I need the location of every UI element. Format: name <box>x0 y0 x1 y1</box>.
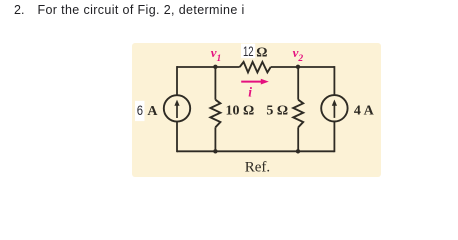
svg-text:6: 6 <box>137 103 143 118</box>
resistor R 5ohm (vertical zigzag) <box>293 100 303 128</box>
current arrow i (magenta) <box>241 79 269 85</box>
junction dot bottom-right <box>296 149 300 153</box>
wire: top-right segment (resistor to right corner) <box>271 66 335 68</box>
wire: left vertical upper (corner to 6A source) <box>176 66 178 95</box>
svg-text:Ref.: Ref. <box>245 159 270 175</box>
wire: 10-ohm branch lower <box>214 127 216 151</box>
svg-text:A: A <box>147 104 158 119</box>
svg-text:5 Ω: 5 Ω <box>266 103 288 118</box>
svg-text:4 A: 4 A <box>354 103 375 118</box>
node v2 junction dot (top) <box>296 65 300 69</box>
wire: bottom (reference) <box>177 150 334 152</box>
figure background panel <box>132 43 381 177</box>
junction dot bottom-left <box>213 149 217 153</box>
svg-text:10 Ω: 10 Ω <box>226 103 255 118</box>
wire: left vertical lower (6A source to bottom) <box>176 122 178 153</box>
current source I2 arrow <box>332 100 337 118</box>
svg-text:12: 12 <box>243 44 254 59</box>
svg-text:i: i <box>248 85 252 100</box>
node v1 junction dot (top) <box>213 65 217 69</box>
resistor R 12ohm (horizontal zigzag) <box>240 62 271 73</box>
problem statement text <box>14 3 245 17</box>
wire: 10-ohm branch upper <box>214 67 216 100</box>
svg-text:Ω: Ω <box>256 46 267 61</box>
resistor R 10ohm (vertical zigzag) <box>210 100 220 128</box>
current source I2 4A (circle) <box>321 95 347 121</box>
wire: top-left segment (left corner to 12-ohm resistor) <box>177 66 240 68</box>
label white patch behind 12 <box>241 44 255 59</box>
wire: right vertical upper (corner to 4A source) <box>333 66 335 95</box>
current source I1 arrow <box>174 100 179 118</box>
wire: 5-ohm branch lower <box>297 127 299 151</box>
label white patch behind 6 <box>135 101 145 121</box>
wire: 5-ohm branch upper <box>297 67 299 100</box>
current source I1 6A (circle) <box>164 95 190 121</box>
wire: right vertical lower (4A source to bottom) <box>333 122 335 153</box>
